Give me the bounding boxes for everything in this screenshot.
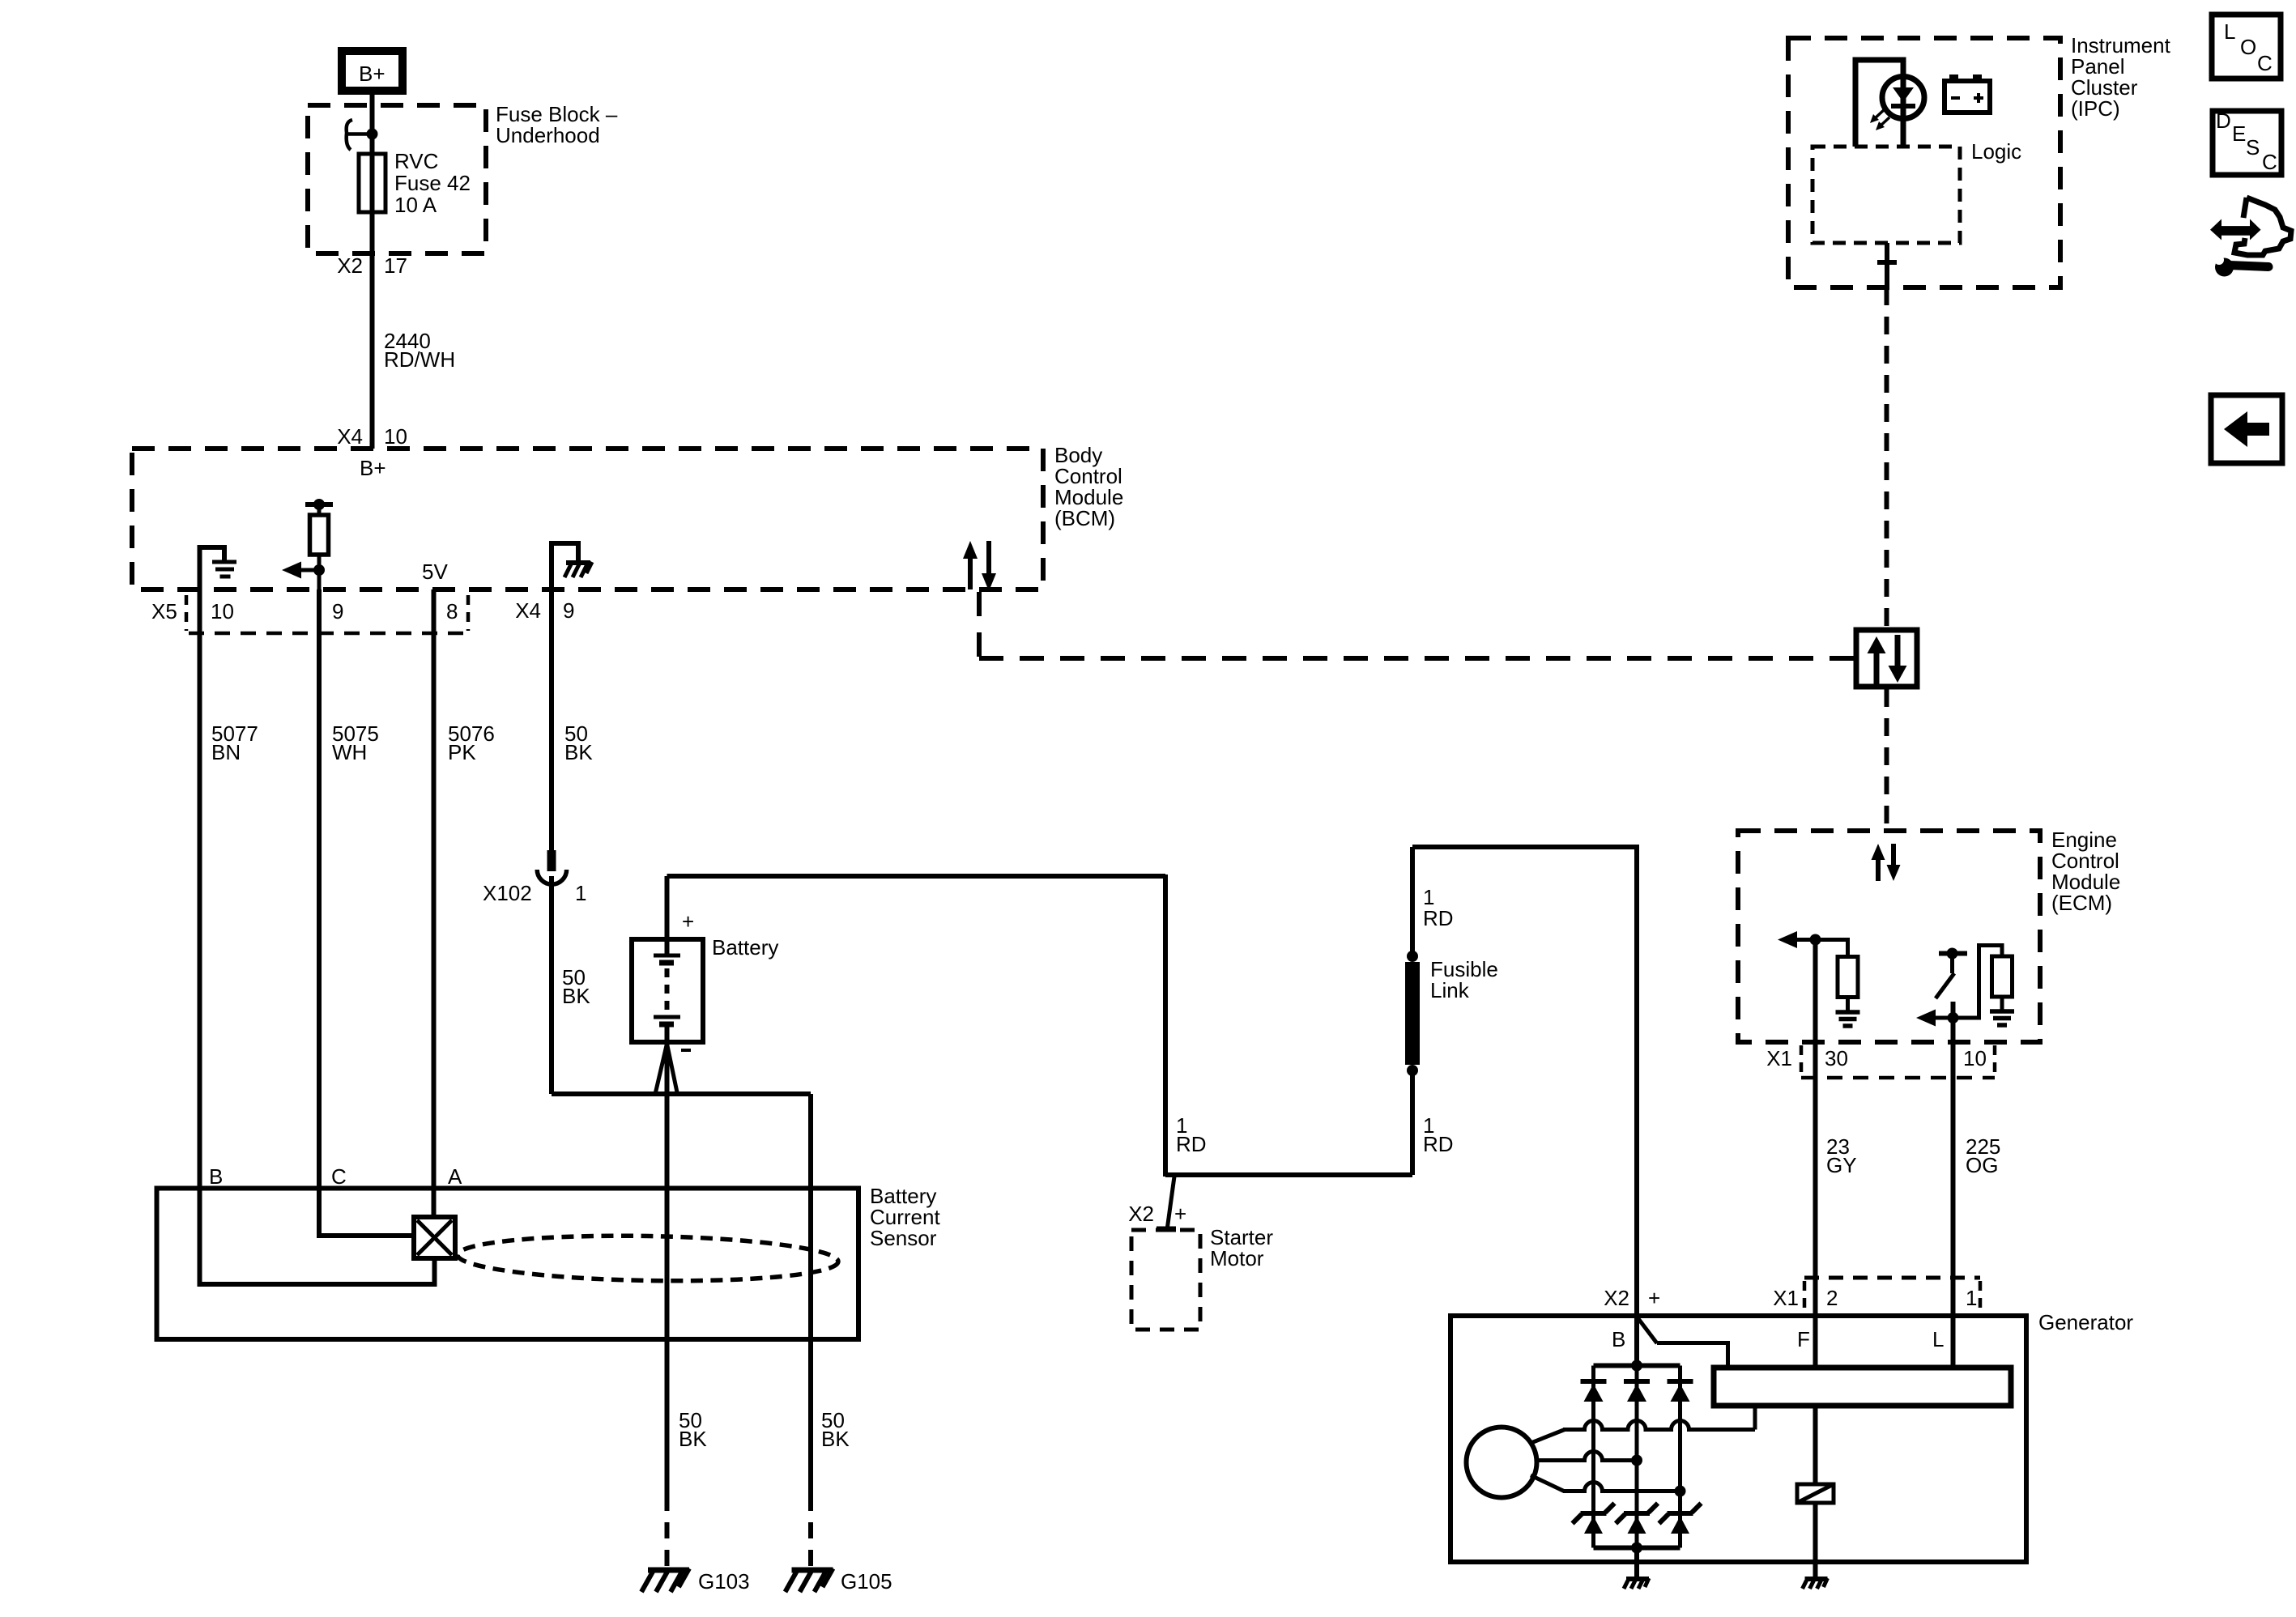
ECM dashed box [1738, 831, 2040, 1042]
svg-text:X4: X4 [515, 598, 541, 623]
IPC indicator wire bracket [1855, 60, 1903, 147]
stator phase 1 winding [1529, 1406, 1755, 1444]
svg-text:B+: B+ [360, 456, 386, 480]
svg-text:L: L [2224, 19, 2235, 44]
ECM left resistor to ground [1816, 940, 1859, 1011]
svg-text:8: 8 [446, 599, 458, 623]
BCM internal resistor branch top bar [305, 499, 333, 510]
wire 5075 WH [319, 589, 379, 1188]
dashed line data link to ECM [1885, 689, 1889, 831]
diode D3 [1668, 1381, 1693, 1402]
battery negative sign [681, 1049, 691, 1052]
chassis ground G105 [786, 1568, 892, 1594]
svg-text:Motor: Motor [1210, 1246, 1264, 1270]
wire battery negative cable [665, 1039, 670, 1339]
svg-text:1: 1 [1966, 1286, 1977, 1310]
zener diode D4 [1573, 1504, 1615, 1534]
chassis ground (hatched) in BCM [564, 562, 592, 577]
svg-text:BK: BK [821, 1427, 850, 1451]
ECM right arrow [1916, 1010, 1953, 1027]
svg-text:BN: BN [211, 740, 241, 764]
connector X1 strip at generator [1773, 1278, 1980, 1313]
zener diode D6 [1659, 1504, 1702, 1534]
svg-text:30: 30 [1825, 1046, 1848, 1070]
rectifier column 1 [1591, 1366, 1595, 1548]
rectifier bottom bus [1594, 1543, 1680, 1554]
earth ground ECM left [1836, 1012, 1860, 1026]
wire 23 GY [1816, 1042, 1857, 1316]
svg-text:G103: G103 [698, 1569, 750, 1594]
bus clip symbol [347, 120, 373, 150]
earth ground in BCM [212, 562, 236, 577]
svg-text:L: L [1932, 1327, 1944, 1351]
svg-text:RD/WH: RD/WH [384, 347, 455, 372]
fuse block underhood dashed box [308, 105, 486, 253]
svg-text:C: C [331, 1164, 347, 1189]
svg-text:X1: X1 [1773, 1286, 1799, 1310]
serial data link box [1856, 630, 1917, 687]
junction dot ECM right [1948, 1012, 1959, 1023]
svg-text:RD: RD [1423, 906, 1454, 930]
wire rectifier to generator ground [1634, 1548, 1639, 1580]
resistor in BCM [310, 504, 329, 589]
svg-text:10: 10 [384, 424, 407, 449]
ECM switch [1936, 948, 1967, 999]
svg-text:+: + [1648, 1286, 1660, 1310]
svg-text:F: F [1797, 1327, 1810, 1351]
connector X4 pin 10 labels [337, 424, 407, 449]
connector X102 pin 1 [483, 850, 586, 905]
DESC icon box [2213, 109, 2281, 175]
svg-text:Underhood: Underhood [496, 123, 600, 147]
wrench icon [2214, 255, 2268, 277]
rectifier column 3 [1678, 1366, 1682, 1548]
LOC icon box [2212, 15, 2281, 79]
pointer hand icon [2210, 198, 2291, 255]
rectifier column 2 [1635, 1366, 1639, 1548]
wire 50 BK to G105 [811, 1339, 850, 1568]
ECM left arrow [1778, 931, 1816, 948]
svg-text:O: O [2240, 35, 2256, 59]
svg-text:A: A [448, 1164, 462, 1189]
svg-text:PK: PK [448, 740, 476, 764]
wire 5077 BN [200, 589, 258, 1188]
svg-text:X2: X2 [1604, 1286, 1629, 1310]
wire 5076 PK [434, 589, 495, 1188]
generator terminal labels B F L [1612, 1327, 1944, 1351]
BCM dashed box [132, 449, 1043, 589]
svg-text:5V: 5V [422, 560, 448, 584]
label Battery Current Sensor [870, 1184, 940, 1250]
wire starter feed diagonal [1167, 1177, 1174, 1230]
sensor pin labels B C A [209, 1164, 462, 1189]
starter motor dashed box [1131, 1229, 1200, 1330]
svg-text:BK: BK [562, 984, 590, 1008]
svg-text:17: 17 [384, 253, 407, 278]
battery negative clamp [656, 1044, 678, 1092]
wire 50 BK to G103 [667, 1339, 708, 1568]
svg-text:S: S [2246, 135, 2260, 160]
svg-text:2: 2 [1826, 1286, 1838, 1310]
back arrow icon box [2211, 395, 2282, 463]
chassis ground generator F [1803, 1578, 1828, 1589]
svg-text:BK: BK [564, 740, 593, 764]
wire 50 BK lower [552, 876, 590, 1094]
svg-text:B: B [1612, 1327, 1625, 1351]
wire battery feed to starter and fusible link [667, 874, 1413, 1177]
junction dot ECM left [1810, 934, 1821, 946]
serial data arrows in ECM [1872, 844, 1901, 881]
svg-text:Generator: Generator [2038, 1310, 2133, 1334]
battery current sensor box [157, 1189, 859, 1340]
svg-text:X2: X2 [1128, 1202, 1154, 1226]
svg-text:10: 10 [211, 599, 234, 623]
field fuse symbol [1797, 1484, 1834, 1503]
dashed line BCM to data link [979, 592, 1856, 658]
wire F to generator ground [1813, 1503, 1818, 1579]
label Fuse Block - Underhood [496, 102, 618, 147]
serial data arrows in BCM [963, 541, 996, 591]
wire 2440 RD/WH [373, 253, 456, 449]
indicator LED lamp [1882, 77, 1924, 119]
svg-text:10 A: 10 A [394, 193, 437, 217]
label Starter Motor [1210, 1225, 1273, 1270]
svg-text:D: D [2216, 109, 2231, 133]
svg-text:C: C [2257, 51, 2273, 75]
wire second ground cable [808, 1094, 813, 1339]
svg-text:RVC: RVC [394, 149, 438, 173]
wire ECM pin 10 internal [1951, 1002, 1956, 1042]
connector X2 pin 17 labels [337, 253, 407, 278]
wire 1 RD to fusible link [1412, 1070, 1454, 1175]
wire battery positive [667, 876, 695, 939]
chassis ground G103 [641, 1568, 750, 1594]
wire 50 BK upper [552, 589, 593, 852]
B+ terminal box [342, 51, 403, 91]
svg-text:Logic: Logic [1971, 139, 2021, 164]
stator phase 3 winding [1531, 1475, 1686, 1497]
signal arrow in BCM [282, 562, 319, 579]
battery telltale icon [1945, 74, 1990, 113]
svg-text:(IPC): (IPC) [2071, 96, 2120, 121]
svg-text:OG: OG [1966, 1153, 1998, 1177]
wire generator B to regulator [1637, 1317, 1728, 1368]
svg-text:X1: X1 [1766, 1046, 1792, 1070]
rotor [1467, 1428, 1537, 1498]
fuse RVC Fuse 42 10 A [359, 134, 471, 253]
diode D2 [1624, 1381, 1650, 1402]
svg-text:E: E [2232, 121, 2246, 146]
ECM right resistor to ground [1953, 946, 2013, 1019]
svg-text:10: 10 [1963, 1046, 1987, 1070]
connector X4 pin 9 labels [515, 598, 574, 623]
earth ground ECM right [1990, 1011, 2014, 1025]
svg-text:(BCM): (BCM) [1054, 506, 1115, 530]
wire 1 RD above fusible link [1412, 847, 1454, 956]
svg-text:9: 9 [563, 598, 574, 623]
connector X5 strip [151, 595, 468, 633]
svg-text:X102: X102 [483, 881, 532, 905]
svg-text:GY: GY [1826, 1153, 1857, 1177]
diode D1 [1581, 1381, 1607, 1402]
chassis ground generator rectifier [1624, 1578, 1649, 1589]
sensor element box with X [414, 1217, 455, 1258]
svg-text:RD: RD [1176, 1132, 1207, 1156]
svg-text:(ECM): (ECM) [2051, 891, 2112, 915]
fusible link [1407, 951, 1498, 1076]
IPC dashed box [1788, 38, 2060, 287]
label Instrument Panel Cluster (IPC) [2071, 33, 2171, 121]
LED light arrows [1870, 109, 1889, 130]
svg-text:BK: BK [679, 1427, 707, 1451]
voltage regulator bar [1714, 1368, 2011, 1406]
sensor coupling ellipse [458, 1232, 839, 1283]
stator phase 2 winding [1536, 1452, 1642, 1466]
IPC logic output line [1877, 243, 1897, 287]
wire F inside generator [1813, 1316, 1818, 1484]
svg-text:X5: X5 [151, 599, 177, 623]
generator box [1450, 1316, 2026, 1562]
svg-text:B+: B+ [359, 62, 386, 86]
wire 225 OG [1953, 1042, 2001, 1316]
svg-text:1: 1 [575, 881, 586, 905]
svg-text:B: B [209, 1164, 223, 1189]
wire L inside generator [1951, 1316, 1956, 1368]
svg-text:Fuse 42: Fuse 42 [394, 171, 471, 195]
svg-text:X2: X2 [337, 253, 363, 278]
connector X2 + labels at generator [1604, 1286, 1660, 1310]
label Body Control Module (BCM) [1054, 443, 1123, 530]
wire ECM pin 30 internal [1813, 940, 1818, 1043]
svg-text:+: + [1174, 1202, 1186, 1226]
label Engine Control Module (ECM) [2051, 828, 2120, 915]
sensor internal wire B [200, 1189, 435, 1285]
wire B+ to fuse block [370, 95, 375, 154]
svg-text:+: + [682, 909, 694, 934]
rectifier top bus [1594, 1360, 1680, 1372]
svg-text:G105: G105 [841, 1569, 892, 1594]
svg-text:Battery: Battery [712, 935, 778, 960]
svg-text:Link: Link [1430, 978, 1470, 1002]
connector X1 strip at ECM [1766, 1045, 1995, 1078]
svg-text:X4: X4 [337, 424, 363, 449]
connector X2 + labels at starter [1128, 1202, 1186, 1226]
junction dot at fuse feed [367, 129, 378, 140]
BCM chassis ground branch [552, 543, 578, 589]
junction dot below resistor [313, 564, 325, 576]
sensor internal wire A [432, 1189, 437, 1219]
logic dashed box in IPC [1813, 147, 1960, 243]
dashed line IPC to data link [1885, 287, 1889, 628]
wire fusible link to generator B [1412, 845, 1637, 1366]
zener diode D5 [1616, 1504, 1658, 1534]
svg-text:RD: RD [1423, 1132, 1454, 1156]
battery [632, 939, 703, 1042]
wire negative cable through sensor [552, 1091, 811, 1096]
sensor internal wire C [319, 1189, 415, 1236]
svg-text:WH: WH [332, 740, 367, 764]
BCM internal ground branch [200, 547, 225, 589]
svg-text:9: 9 [332, 599, 343, 623]
svg-text:C: C [2262, 150, 2277, 174]
svg-text:Sensor: Sensor [870, 1226, 937, 1250]
